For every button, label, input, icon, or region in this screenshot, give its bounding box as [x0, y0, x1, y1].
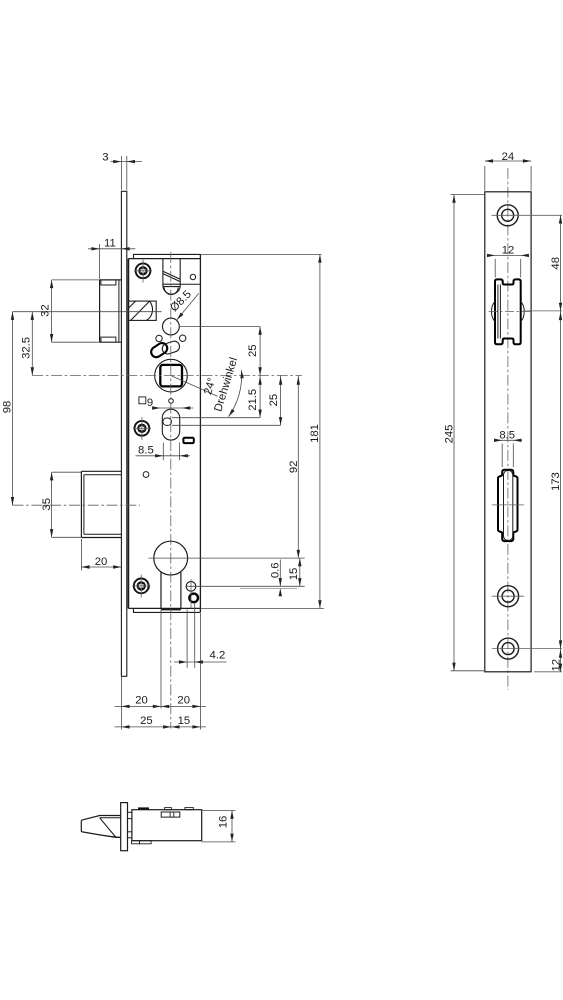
svg-text:20: 20 — [95, 556, 108, 568]
svg-text:12: 12 — [502, 244, 515, 256]
right view arrows — [452, 159, 562, 672]
right view texts — [444, 151, 563, 671]
dim 32 extensions — [52, 279, 100, 281]
lock case bottom edge — [128, 607, 200, 609]
svg-text:32.5: 32.5 — [21, 337, 33, 359]
svg-text:245: 245 — [444, 425, 456, 444]
svg-text:20: 20 — [135, 695, 148, 707]
svg-text:25: 25 — [268, 394, 280, 407]
right side bulge — [521, 302, 525, 322]
dim 3 line — [111, 161, 143, 163]
dim 16 bottom view — [202, 811, 236, 842]
latch wedge (top view) — [81, 820, 120, 838]
svg-text:181: 181 — [309, 424, 321, 443]
case (top view) — [132, 810, 202, 841]
faceplate bar (top view) — [121, 803, 128, 851]
torx screw 3 — [134, 579, 149, 594]
dim 11 extension — [99, 244, 101, 279]
plate bottom ext — [534, 671, 562, 673]
bottom tab 1 — [132, 841, 140, 844]
latch wedge bevel — [100, 818, 116, 838]
dim 24 extensions — [484, 166, 486, 191]
latch face inner lines — [497, 285, 499, 339]
dim 8.5 arrows (outside) — [155, 454, 163, 457]
spring ledge line to case edge — [180, 283, 200, 285]
dim 11 line — [88, 248, 135, 250]
follower square (bold) — [160, 365, 182, 387]
dim 0.6 arrows (outside) — [279, 578, 282, 586]
oval cylinder hole (capsule) — [162, 409, 179, 440]
top tab 2 — [165, 808, 172, 810]
cylinder stem right — [180, 572, 182, 609]
dim 20 deadbolt arrows — [81, 565, 89, 568]
dim 4.2 extensions — [186, 610, 188, 668]
bottom extensions — [120, 677, 122, 730]
bottom dims row2 line — [115, 726, 207, 728]
bottom screw hole outer — [498, 638, 519, 659]
svg-text:15: 15 — [288, 568, 300, 581]
svg-text:35: 35 — [41, 498, 53, 511]
left side bulge — [492, 302, 496, 322]
bottom screw hole inner — [502, 643, 514, 655]
svg-text:4.2: 4.2 — [210, 650, 226, 662]
svg-text:16: 16 — [218, 816, 230, 829]
lock case top edge — [128, 258, 200, 260]
ext oval top center — [172, 417, 260, 419]
dim 24 line — [485, 160, 531, 162]
latch wedge top inner line — [100, 817, 121, 819]
dim 8.5 right extensions — [501, 444, 503, 468]
capsule lever (bold) — [149, 341, 169, 359]
latch bolt head (protruding left) — [100, 280, 122, 342]
svg-text:21.5: 21.5 — [247, 389, 259, 411]
dim 3 arrows (outside) — [113, 160, 121, 163]
ext from D8.5 hole center — [180, 326, 261, 328]
dim 181 bottom extension — [200, 607, 324, 609]
slot centerline — [492, 504, 524, 506]
arc arrows — [240, 370, 244, 378]
dim 15 right arrows — [298, 558, 301, 566]
dim 181 arrows — [318, 254, 321, 262]
dim 11 arrows (outside) — [91, 247, 99, 250]
right view centerline horizontals — [489, 215, 563, 672]
bottom dims row1 line — [115, 705, 207, 707]
svg-text:15: 15 — [178, 715, 191, 727]
top tab 3 — [185, 808, 193, 810]
dim 245 extensions — [451, 194, 485, 196]
vertical centerline right view — [507, 168, 509, 690]
dim 8.5 extensions — [162, 443, 164, 461]
dim 32 arrows — [50, 280, 53, 288]
dim 98 arrows — [11, 312, 14, 320]
svg-text:32: 32 — [39, 304, 51, 317]
svg-text:48: 48 — [550, 257, 562, 270]
top tab filled — [138, 807, 149, 809]
latch window (front) bold outline — [495, 279, 521, 344]
middle screw centerline — [492, 595, 524, 597]
top screw hole inner — [502, 209, 514, 221]
rotation arc — [229, 370, 242, 417]
dim 4.2 arrows (outside) — [179, 660, 187, 663]
ext oval mid center — [172, 424, 281, 426]
svg-text:25: 25 — [247, 344, 259, 357]
small hole upper right — [190, 274, 195, 279]
small hole below follower — [169, 399, 174, 404]
screw crosshairs — [132, 260, 191, 609]
svg-text:9: 9 — [147, 397, 153, 409]
latch centerline — [13, 311, 162, 313]
row1 arrows — [121, 705, 129, 708]
capsule lever (thin) — [161, 340, 181, 356]
svg-text:92: 92 — [288, 461, 300, 474]
dim 32.5 arrows — [31, 312, 34, 320]
hole D8.5 — [163, 318, 180, 335]
torx screw 2 — [135, 421, 150, 436]
top center box — [161, 812, 180, 817]
latch tail block (hatched) inside case — [128, 301, 156, 320]
window centerline — [489, 311, 531, 313]
deadbolt centerline — [13, 504, 141, 506]
svg-text:24: 24 — [502, 151, 515, 163]
latch head bottom notch — [101, 337, 116, 342]
dim 32 line — [51, 280, 53, 342]
cylinder stem left — [160, 572, 162, 609]
D8.5 leader arrow — [175, 313, 183, 321]
dim 9 line — [153, 407, 194, 409]
dim 12 bottom line — [560, 649, 562, 672]
dim 21.5 arrows — [258, 377, 261, 385]
dim 245 line — [453, 195, 455, 671]
cylinder stem bottom — [161, 609, 181, 611]
svg-text:98: 98 — [2, 401, 14, 414]
torx screw 1 — [136, 263, 151, 278]
deadbolt (protruding left) — [81, 471, 121, 537]
cylinder escutcheon slot (bold) — [498, 470, 518, 541]
dim 181 line — [319, 254, 321, 608]
latch head top notch — [101, 280, 116, 285]
dim 92 line — [297, 376, 299, 559]
svg-text:12: 12 — [550, 659, 562, 672]
small circle beside bottom screw — [148, 583, 149, 589]
dim 35 extensions — [52, 471, 81, 473]
bold ring hole bottom — [189, 594, 198, 603]
small hole right of D8.5 — [180, 335, 186, 341]
0.6 second line — [240, 587, 297, 589]
svg-text:20: 20 — [177, 695, 190, 707]
dim 15 line right — [299, 558, 301, 586]
svg-text:0.6: 0.6 — [270, 562, 282, 578]
svg-text:3: 3 — [102, 152, 108, 164]
fixing screw hole (cross) — [186, 582, 196, 592]
dim 48 line — [560, 215, 562, 311]
dim 9 arrows (outside) — [152, 406, 160, 409]
dim 12 top extensions — [494, 259, 496, 278]
dim 20 deadbolt line — [81, 566, 121, 568]
vertical centerline left view — [170, 252, 172, 729]
forend plate outline — [485, 192, 531, 672]
svg-text:11: 11 — [104, 238, 116, 250]
inner slot of oval hole — [163, 418, 172, 425]
dim 25b line — [280, 376, 282, 426]
cylinder hole (europrofile) circle — [154, 541, 188, 575]
dim 25 top arrows — [258, 327, 261, 335]
centerlines (dash-dot) — [13, 168, 508, 729]
row2 arrows — [121, 725, 129, 728]
small hole above deadbolt — [143, 472, 149, 478]
follower angle leader — [171, 376, 218, 397]
small hole left of D8.5 — [156, 335, 162, 341]
top screw centerline — [492, 214, 563, 216]
dim 8.5 line — [136, 455, 191, 457]
latch wedge bottom inner — [104, 836, 121, 838]
svg-text:25: 25 — [140, 715, 153, 727]
0.6 dim line — [279, 560, 281, 587]
lock case bottom cap — [134, 608, 201, 612]
latch spring (diagonal) — [163, 271, 180, 281]
dim 35 line — [51, 472, 53, 537]
window centerline ext — [524, 310, 563, 312]
dim 3 extension lines — [120, 156, 122, 190]
svg-text:8.5: 8.5 — [499, 430, 515, 442]
right view dimension lines — [451, 161, 561, 672]
middle screw hole inner — [502, 590, 514, 602]
lock case top cap — [134, 254, 201, 258]
dim 98 line — [12, 312, 14, 506]
cylinder slot inner opening — [504, 470, 513, 540]
cylinder centerline ext — [149, 557, 305, 559]
dim 25b arrows — [279, 377, 282, 385]
ext fixing screw center — [186, 585, 305, 587]
svg-text:173: 173 — [550, 472, 562, 491]
dim 32.5 line — [31, 312, 33, 376]
faceplate (side strip) — [121, 191, 126, 676]
dim 35 arrows — [50, 472, 53, 480]
follower circle — [155, 359, 188, 392]
middle screw hole outer — [498, 586, 519, 607]
top screw hole outer — [497, 205, 518, 226]
connector steps plate-case — [128, 811, 132, 813]
dim 25 top line — [259, 327, 261, 376]
lock case left edge — [127, 259, 129, 609]
dim 173 line — [560, 311, 562, 649]
follower slot at case top — [163, 259, 180, 295]
dim 20 extension — [80, 539, 82, 571]
square 9 symbol — [139, 397, 146, 404]
dim 21.5 line — [259, 376, 261, 418]
small bold bar right of oval — [183, 438, 193, 443]
D8.5 leader — [177, 293, 199, 320]
dim 12 top line — [493, 254, 523, 256]
dim 92 arrows — [297, 377, 300, 385]
svg-text:8.5: 8.5 — [138, 445, 154, 457]
follower centerline — [32, 375, 302, 377]
bottom screw centerline — [492, 648, 562, 650]
dim 4.2 line — [174, 661, 227, 663]
lock case right edge — [199, 254, 201, 612]
dim 181 top extension — [200, 253, 321, 255]
dim 8.5 right line — [494, 439, 522, 441]
